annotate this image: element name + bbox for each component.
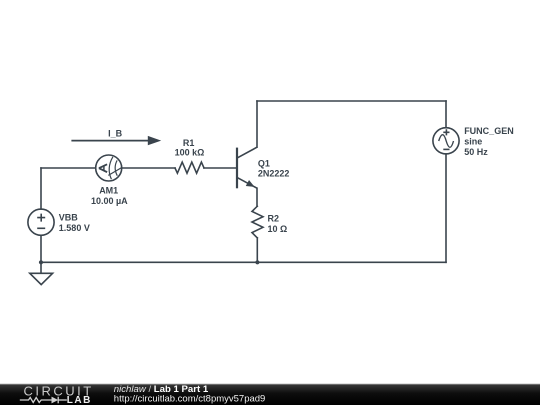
wire: emitter vertical — [256, 188, 258, 206]
wire: R2 to bottom rail — [256, 238, 258, 262]
emitter arrowhead — [246, 180, 256, 190]
svg-text:R1: R1 — [183, 138, 195, 148]
wire: top rail — [257, 100, 446, 102]
svg-text:LAB: LAB — [67, 395, 92, 405]
wire: right vertical lower — [445, 154, 447, 262]
footer bar — [0, 384, 540, 405]
svg-text:2N2222: 2N2222 — [258, 169, 290, 179]
svg-text:Q1: Q1 — [258, 158, 270, 168]
junction: R2/bottom rail — [255, 260, 259, 264]
voltage source VBB — [28, 209, 54, 235]
ground — [30, 262, 53, 284]
svg-text:10.00 µA: 10.00 µA — [91, 196, 128, 206]
svg-text:AM1: AM1 — [99, 186, 118, 196]
wire: R1 to Q1 base — [204, 167, 237, 169]
wire: VBB top vertical — [40, 168, 42, 209]
svg-text:R2: R2 — [268, 214, 280, 224]
current arrow I_B — [71, 136, 161, 145]
resistor R2 zigzag — [252, 206, 263, 238]
ammeter AM1 — [96, 155, 122, 181]
svg-text:FUNC_GEN: FUNC_GEN — [464, 126, 514, 136]
wire: collector vertical — [256, 101, 258, 147]
wire: bottom rail — [41, 261, 446, 263]
svg-text:http://circuitlab.com/ct8pmyv5: http://circuitlab.com/ct8pmyv57pad9 — [114, 394, 266, 405]
logo wire with resistor and diode — [20, 397, 67, 404]
wire: AM1 to R1 — [122, 167, 175, 169]
svg-text:1.580 V: 1.580 V — [59, 223, 90, 233]
wire: VBB bottom vertical — [40, 235, 42, 262]
transistor Q1 — [237, 147, 257, 188]
svg-text:10 Ω: 10 Ω — [268, 224, 288, 234]
svg-text:VBB: VBB — [59, 213, 79, 223]
svg-text:I_B: I_B — [108, 128, 123, 138]
svg-text:50 Hz: 50 Hz — [464, 147, 488, 157]
resistor R1 zigzag — [175, 162, 204, 173]
source FUNC_GEN — [433, 128, 459, 154]
svg-text:sine: sine — [464, 137, 482, 147]
junction: VBB/ground/bottom rail — [39, 260, 43, 264]
svg-text:100 kΩ: 100 kΩ — [175, 148, 205, 158]
wire: main horizontal VBB to AM1 — [41, 167, 96, 169]
wire: right vertical upper — [445, 101, 447, 128]
